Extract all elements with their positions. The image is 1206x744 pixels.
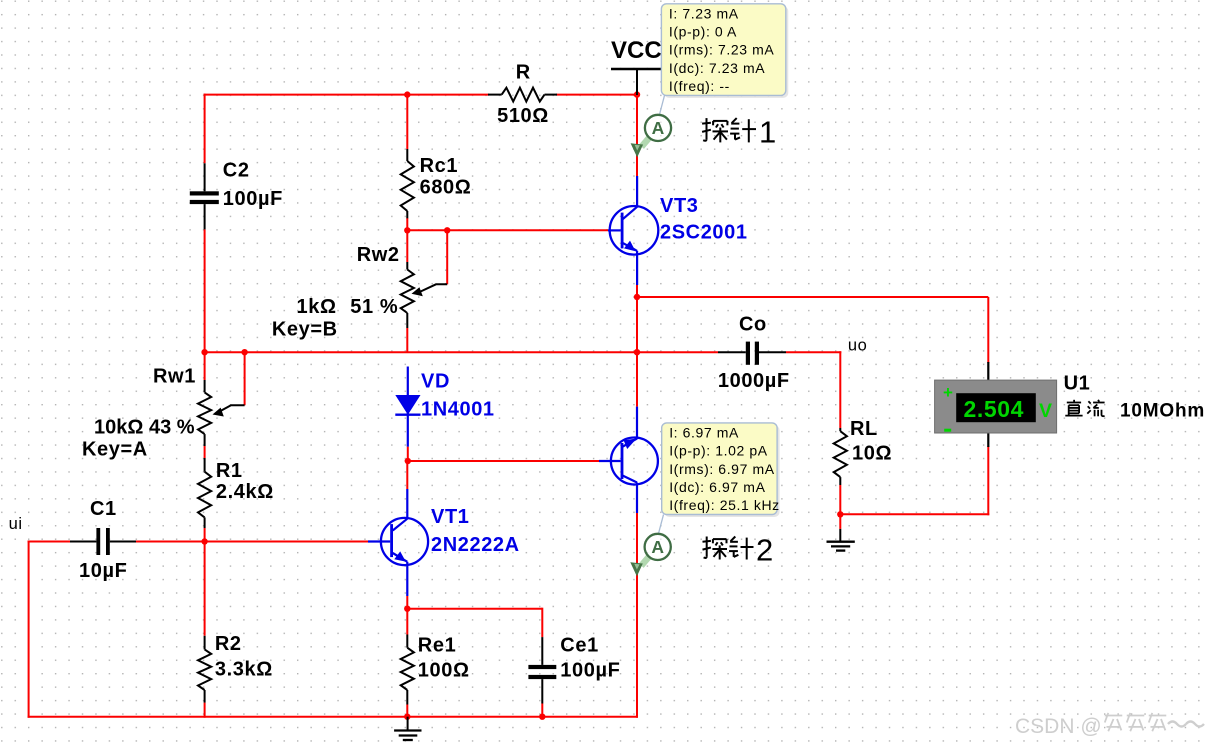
svg-text:10MOhm: 10MOhm	[1120, 401, 1205, 422]
svg-text:1kΩ: 1kΩ	[297, 296, 337, 318]
ground RL	[827, 529, 855, 551]
probe 2 (current probe A)	[630, 534, 671, 577]
wire	[406, 95, 408, 149]
wire	[541, 608, 543, 637]
svg-text:uo: uo	[848, 337, 868, 355]
capacitor Ce1	[528, 637, 556, 703]
resistor R1	[198, 458, 211, 528]
wire	[28, 541, 70, 543]
svg-text:100Ω: 100Ω	[418, 660, 470, 682]
wire	[28, 541, 30, 718]
svg-text:I(dc): 7.23 mA: I(dc): 7.23 mA	[669, 60, 765, 76]
svg-text:51 %: 51 %	[350, 296, 398, 318]
svg-text:2.4kΩ: 2.4kΩ	[216, 481, 274, 503]
transistor VT3	[608, 176, 658, 285]
svg-text:VT1: VT1	[431, 506, 469, 528]
resistor Rc1	[401, 149, 414, 218]
svg-text:VCC: VCC	[611, 37, 662, 64]
node Rc1 bottom	[404, 227, 410, 233]
transistor VT1	[368, 489, 428, 596]
wire	[556, 94, 637, 96]
svg-text:Key=A: Key=A	[82, 439, 148, 461]
svg-text:Key=B: Key=B	[272, 319, 338, 341]
svg-text:1N4001: 1N4001	[421, 398, 495, 420]
svg-text:C1: C1	[90, 498, 117, 520]
wire	[204, 94, 206, 164]
node ground junction	[404, 714, 410, 720]
wire	[406, 328, 408, 352]
svg-text:I(rms): 6.97 mA: I(rms): 6.97 mA	[669, 461, 775, 477]
svg-text:10kΩ 43 %: 10kΩ 43 %	[94, 417, 195, 439]
wire	[407, 229, 608, 231]
wire	[637, 296, 988, 298]
wire	[204, 528, 206, 543]
wire	[205, 351, 638, 353]
svg-text:A: A	[651, 537, 664, 557]
node left column mid	[201, 349, 207, 355]
wire	[28, 716, 638, 718]
node Ce1 bottom junction	[539, 714, 545, 720]
svg-text:2N2222A: 2N2222A	[431, 534, 520, 556]
svg-text:I(p-p): 0 A: I(p-p): 0 A	[669, 24, 737, 40]
svg-text:I(rms): 7.23 mA: I(rms): 7.23 mA	[669, 42, 775, 58]
svg-text:I(freq): --: I(freq): --	[669, 78, 730, 94]
capacitor C1	[70, 528, 136, 555]
wire	[136, 541, 368, 543]
wire	[636, 352, 638, 406]
wire	[636, 69, 638, 176]
wire	[204, 229, 206, 353]
svg-text:10Ω: 10Ω	[852, 443, 892, 465]
label 探针1	[702, 115, 777, 150]
node RL ground junction	[837, 511, 843, 517]
potentiometer Rw1	[198, 380, 245, 446]
svg-text:3.3kΩ: 3.3kΩ	[215, 659, 273, 681]
resistor R	[488, 88, 557, 102]
svg-text:R2: R2	[215, 633, 242, 655]
potentiometer Rw2	[401, 262, 448, 328]
wire	[636, 513, 638, 718]
node VCC junction	[634, 91, 640, 97]
svg-text:R: R	[516, 62, 531, 84]
wire	[786, 351, 841, 353]
svg-text:U1: U1	[1064, 373, 1091, 395]
svg-text:VT3: VT3	[660, 195, 698, 217]
wire	[406, 705, 408, 718]
svg-text:Co: Co	[739, 314, 767, 336]
svg-text:RL: RL	[850, 418, 878, 440]
wire	[839, 485, 841, 529]
power VCC	[611, 69, 661, 95]
node VD cathode junction	[405, 458, 411, 464]
wire	[541, 704, 543, 718]
node top-left of R	[404, 91, 410, 97]
capacitor C2	[190, 163, 219, 229]
wire	[987, 297, 989, 363]
svg-text:CSDN @: CSDN @	[1015, 715, 1102, 738]
wire	[204, 542, 206, 636]
label 直流	[1065, 400, 1104, 417]
svg-text:Rw1: Rw1	[153, 366, 196, 388]
measurement box probe2	[662, 423, 780, 517]
svg-text:I: 6.97 mA: I: 6.97 mA	[669, 425, 739, 441]
wire	[406, 460, 408, 489]
diode VD	[395, 367, 420, 447]
wire	[407, 447, 409, 461]
wire	[408, 460, 599, 462]
transistor VT2	[599, 407, 658, 513]
svg-text:2: 2	[756, 533, 774, 568]
wire	[446, 230, 448, 284]
wire	[406, 609, 408, 635]
callout line probe2	[659, 515, 664, 534]
svg-text:I: 7.23 mA: I: 7.23 mA	[669, 6, 739, 22]
svg-text:Ce1: Ce1	[560, 635, 599, 657]
svg-text:+: +	[943, 383, 954, 402]
svg-text:I(p-p): 1.02 pA: I(p-p): 1.02 pA	[669, 443, 768, 459]
node mid-row right	[634, 349, 640, 355]
resistor R2	[198, 636, 211, 703]
wire	[407, 608, 542, 610]
svg-text:Rw2: Rw2	[357, 244, 400, 266]
svg-text:510Ω: 510Ω	[497, 105, 549, 127]
svg-text:1: 1	[759, 115, 777, 150]
wire	[839, 351, 841, 428]
label 探针2	[703, 533, 774, 568]
node VT3 emitter junction	[634, 294, 640, 300]
multimeter U1	[935, 362, 1057, 447]
resistor Re1	[401, 635, 414, 705]
svg-text:VD: VD	[421, 371, 450, 393]
wire	[840, 513, 989, 515]
svg-text:680Ω: 680Ω	[420, 177, 472, 199]
wire	[204, 446, 206, 458]
wire	[406, 230, 408, 262]
svg-text:A: A	[652, 118, 665, 138]
wire	[987, 446, 989, 515]
probe 1 (current probe A)	[631, 115, 672, 158]
resistor RL	[834, 428, 847, 485]
wire	[636, 284, 638, 352]
node VT1 emitter junction	[404, 606, 410, 612]
node C1 output	[201, 538, 207, 544]
wire	[244, 352, 246, 405]
svg-text:R1: R1	[216, 460, 243, 482]
watermark	[1015, 713, 1204, 738]
svg-text:Re1: Re1	[418, 635, 457, 657]
node Rw1 wiper tap	[241, 349, 247, 355]
wire	[204, 352, 206, 380]
svg-text:I(dc): 6.97 mA: I(dc): 6.97 mA	[669, 479, 765, 495]
wire	[204, 94, 489, 96]
wire	[204, 703, 206, 718]
svg-text:I(freq): 25.1 kHz: I(freq): 25.1 kHz	[669, 497, 780, 513]
node Rw2 wiper tap	[444, 227, 450, 233]
wire	[637, 351, 718, 353]
svg-text:1000µF: 1000µF	[718, 370, 790, 392]
svg-text:C2: C2	[223, 159, 250, 181]
svg-text:Rc1: Rc1	[420, 155, 459, 177]
svg-text:V: V	[1039, 400, 1053, 422]
svg-text:ui: ui	[9, 515, 23, 533]
svg-text:2SC2001: 2SC2001	[660, 222, 748, 244]
ground	[394, 717, 421, 740]
svg-text:2.504: 2.504	[964, 396, 1025, 422]
svg-text:100µF: 100µF	[560, 660, 620, 682]
wire	[406, 596, 408, 610]
svg-text:10µF: 10µF	[79, 560, 127, 582]
capacitor Co	[718, 342, 786, 365]
wire	[406, 218, 408, 231]
measurement box probe1	[661, 4, 788, 98]
callout line probe1	[660, 95, 665, 114]
svg-text:100µF: 100µF	[223, 188, 283, 210]
